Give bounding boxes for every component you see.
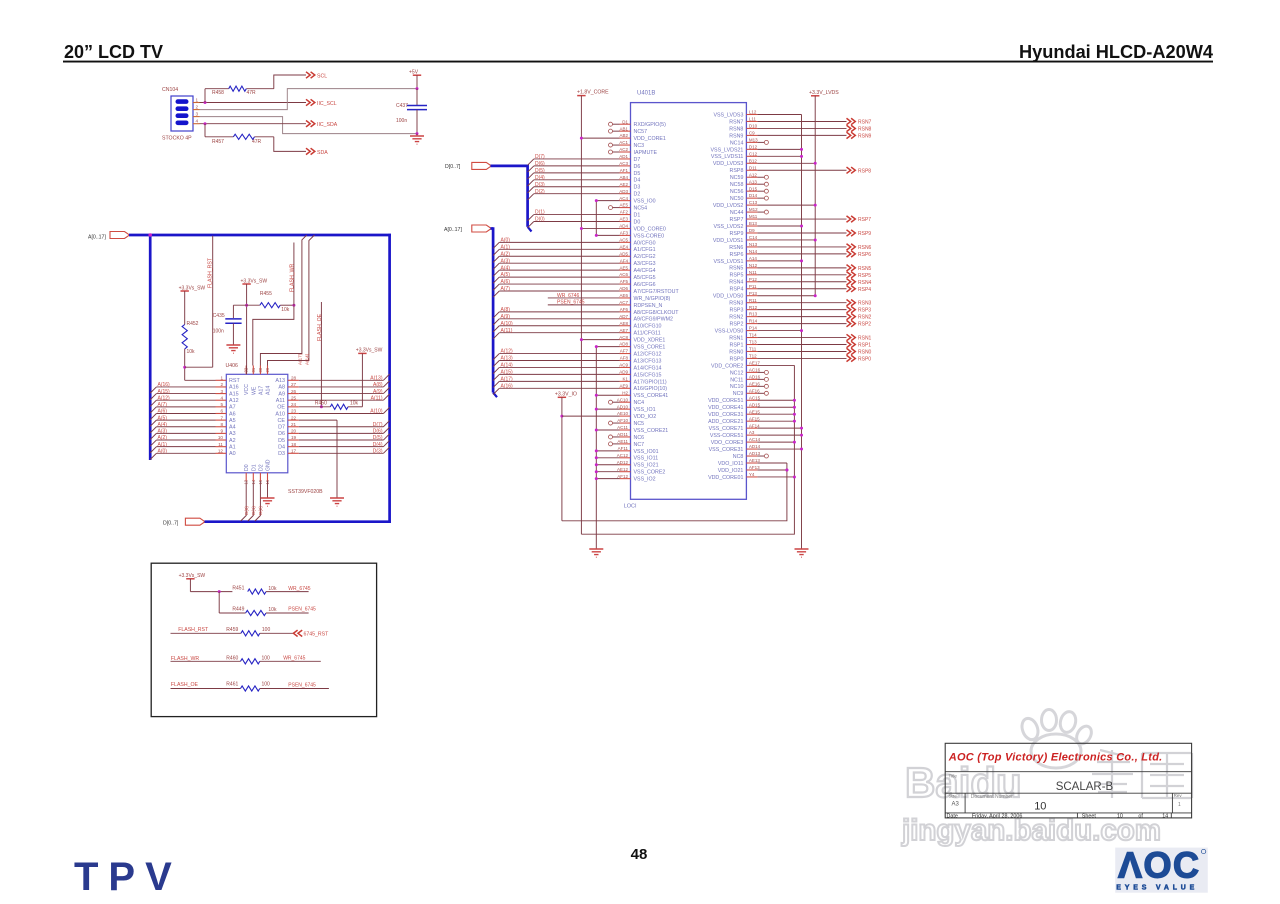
svg-text:30: 30 [258,367,263,372]
svg-text:ADD_CORE21: ADD_CORE21 [708,419,743,425]
svg-text:R455: R455 [260,291,272,297]
svg-text:R450: R450 [315,401,327,407]
svg-text:A7/CFG7/RSTOUT: A7/CFG7/RSTOUT [634,289,680,295]
svg-text:D(5): D(5) [535,168,545,174]
svg-text:AE7: AE7 [619,328,628,333]
svg-text:VDD_CORE2: VDD_CORE2 [711,363,743,369]
U401B left pin AE2 D3 [528,182,641,193]
svg-text:Friday, April 28, 2006: Friday, April 28, 2006 [972,814,1023,820]
svg-text:RSN2: RSN2 [729,315,743,321]
U401B right pin B12 VDD_LVDS3 [713,158,817,167]
svg-text:AD11: AD11 [617,432,628,437]
U406 left pin 7 A5 [216,415,236,424]
svg-text:STOCKO 4P: STOCKO 4P [162,136,192,142]
svg-text:A(9): A(9) [501,314,511,320]
svg-text:C437: C437 [396,103,408,109]
net arrow SCL [306,72,315,78]
svg-text:U406: U406 [226,363,239,369]
svg-text:AOC (Top Victory) Electronics: AOC (Top Victory) Electronics Co., Ltd. [948,752,1163,764]
svg-text:A(12): A(12) [158,395,171,401]
resistor R458 leads and wire to SCL [204,89,206,103]
U401B left pin AC10 NC4 [609,397,645,406]
U401B left pin AB2 VDD_CORE1 [580,133,666,142]
svg-text:VSS_LVDS11: VSS_LVDS11 [711,154,744,160]
svg-text:1: 1 [220,376,223,381]
svg-text:A3/CFG3: A3/CFG3 [634,261,656,267]
U406 left pin 11 A1 [216,442,236,451]
wire pin2 to +5V rail [200,89,417,110]
svg-text:D14: D14 [749,193,758,198]
U406 right pin 20 D6 [278,429,299,438]
junction R451 R449 [218,590,221,593]
U401B left pin AD5 A2/CFG2 [493,251,656,262]
svg-text:Size: Size [949,794,958,799]
svg-text:D(0): D(0) [535,217,545,223]
svg-text:D3: D3 [278,451,285,457]
resistor R457 zigzag [233,134,254,139]
junction FLASH_RST [183,366,186,369]
U401B left pin AF12 VSS_IO2 [595,474,656,483]
svg-text:AD4: AD4 [619,224,628,229]
svg-text:D11: D11 [749,165,757,170]
svg-text:R451: R451 [232,585,244,591]
U406 left pin 12 A0 [216,448,236,457]
svg-text:A5/CFG5: A5/CFG5 [634,275,656,281]
U406 left pin 1 RST [216,376,241,385]
svg-text:A(7): A(7) [501,286,511,292]
svg-text:D(6): D(6) [535,161,545,167]
svg-text:VDD_CORE1: VDD_CORE1 [634,136,666,142]
U401B right pin N13 RSN6 [729,242,871,251]
svg-text:A(10): A(10) [501,321,514,327]
svg-text:RSN8: RSN8 [729,126,743,132]
svg-text:AF4: AF4 [620,258,629,263]
U406 left pin 9 A3 [216,429,236,438]
U401B right pin AF16 NC9 [733,388,769,397]
U401B left pin AC5 A0/CFG0 [493,237,656,248]
wire R452 bottom to RST pin [184,349,186,380]
svg-text:AC14: AC14 [749,437,761,442]
svg-text:R13: R13 [749,312,758,317]
svg-text:AC2: AC2 [619,147,628,152]
svg-text:EYES VALUE: EYES VALUE [1116,885,1198,892]
svg-text:R458: R458 [212,90,224,96]
U401B left pin AF1 D5 [528,168,641,179]
svg-text:ΛOC: ΛOC [1118,845,1201,886]
wire pin3 to ground rail [200,117,417,134]
svg-text:WR_6746: WR_6746 [557,293,579,299]
svg-text:D6: D6 [634,164,641,170]
U401B right pin AD16 NC11 [730,374,768,383]
svg-text:T14: T14 [749,333,757,338]
svg-text:RSN9: RSN9 [858,133,872,139]
svg-text:AB2: AB2 [619,133,628,138]
svg-text:AE17: AE17 [749,361,761,366]
svg-text:SDA: SDA [317,150,328,156]
svg-text:D(2): D(2) [258,506,263,515]
U406 right pin 27 A8 [278,382,298,391]
svg-text:VDD_IO21: VDD_IO21 [718,468,744,474]
svg-text:WR_6745: WR_6745 [288,586,310,592]
svg-text:D1: D1 [622,119,628,124]
U401B left pin AE10 VDD_IO2 [562,411,656,420]
U401B right pin N12 RSN5 [729,263,871,272]
wire bus entry A(3) to U406 [150,429,215,440]
svg-text:48: 48 [631,846,648,863]
svg-text:A9/CFG9/PWM2: A9/CFG9/PWM2 [634,317,673,323]
svg-text:FLASH_OE: FLASH_OE [317,313,323,341]
U401B right pin T12 RSP0 [730,354,872,363]
svg-text:D(3): D(3) [373,448,383,454]
svg-text:VDD_LVDS1: VDD_LVDS1 [713,238,744,244]
svg-text:8: 8 [220,422,223,427]
svg-text:RXD/GPIO(5): RXD/GPIO(5) [634,122,667,128]
U406 left pin 10 A2 [216,435,236,444]
U406 right pin 24 OE [277,402,299,411]
svg-text:A(1): A(1) [158,442,168,448]
svg-text:D(4): D(4) [535,175,545,181]
U401B left pin AF11 VSS_IO01 [595,446,659,455]
U401B left pin AD3 D2 [528,189,641,200]
junction VCC rail [245,304,248,307]
U401B left pin AF5 A6/CFG6 [493,279,656,290]
U401B left pin AB4 D4 [528,175,641,186]
svg-text:A12/CFG12: A12/CFG12 [634,351,662,357]
svg-text:VDD_LVDS0: VDD_LVDS0 [713,294,744,300]
wire R459 to 6745_RST [260,632,294,634]
svg-text:RSP1: RSP1 [730,342,744,348]
wire bus entry A(14) to U406 A14 pin [268,235,315,366]
U401B left pin AD4 VDD_CORE0 [580,224,666,233]
U406 left pin 2 A16 [216,382,239,391]
svg-text:AC12: AC12 [617,453,629,458]
svg-text:M11: M11 [749,214,758,219]
wire bus entry A(16) to U406 [150,382,215,393]
U401B left pin AF6 A8/CFG8/CLKOUT [493,307,679,318]
svg-text:NC14: NC14 [730,140,744,146]
U401B left pin AF8 A13/CFG13 [493,356,661,367]
bus D[0..7] horizontal at U401B [491,165,529,168]
svg-text:1: 1 [196,98,199,103]
svg-text:D(1): D(1) [535,210,545,216]
svg-text:VSS_CORE1: VSS_CORE1 [634,345,666,351]
svg-text:AF13: AF13 [749,465,760,470]
svg-text:RSN0: RSN0 [729,349,743,355]
baidu watermark chinese characters [1092,750,1192,798]
U401B right pin D12 VSS_LVDS21 [711,144,803,153]
svg-text:SST39VF020B: SST39VF020B [288,489,323,495]
svg-text:A(13): A(13) [501,356,514,362]
svg-text:AF3: AF3 [620,231,629,236]
svg-text:H2: H2 [622,390,628,395]
U401B right pin AE13 VDO_IO11 [718,458,787,467]
svg-text:D0: D0 [244,464,250,471]
svg-text:VSS_CORE2: VSS_CORE2 [634,470,666,476]
svg-text:A(15): A(15) [158,389,171,395]
U401B right pin P11 RSP4 [730,284,872,293]
U401B left pin AF4 A3/CFG3 [493,258,656,269]
U401B left pin AD9 A15/CFG15 [493,370,661,381]
svg-text:NC50: NC50 [730,196,744,202]
svg-text:RSP0: RSP0 [858,356,871,362]
svg-text:AD14: AD14 [749,444,761,449]
U401B right pin C9 RSN9 [729,131,871,140]
resistor R460 zigzag [241,659,260,664]
U401B left pin AC3 D6 [528,161,641,172]
wire bus entry A(15) to U406 [150,389,215,400]
svg-text:A13: A13 [749,179,758,184]
svg-text:AD8: AD8 [619,342,628,347]
svg-text:RSP5: RSP5 [730,273,744,279]
svg-text:VSS_IO0: VSS_IO0 [634,199,656,205]
U401B right pin T14 RSN1 [729,333,871,342]
svg-text:A13: A13 [275,378,285,384]
svg-text:D(3): D(3) [535,182,545,188]
capacitor C435 [225,318,241,320]
svg-text:A(8): A(8) [373,382,383,388]
svg-text:A15/CFG15: A15/CFG15 [634,372,662,378]
svg-text:AF1: AF1 [620,168,629,173]
svg-text:P14: P14 [749,326,758,331]
U401B right pin C12 VSS_LVDS11 [711,151,803,160]
svg-text:A(8): A(8) [501,307,511,313]
svg-text:AC3: AC3 [619,161,628,166]
svg-text:N11: N11 [749,270,757,275]
U401B right pin AD15 VDD_CORE41 [708,402,796,411]
svg-text:RSN6: RSN6 [858,245,872,251]
U401B left pin AE5 A4/CFG4 [493,265,656,276]
svg-text:100: 100 [262,681,271,687]
svg-text:A(16): A(16) [158,382,171,388]
U406 right pin 17 D3 [278,448,299,457]
svg-text:A0: A0 [229,451,236,457]
svg-text:29: 29 [265,367,270,372]
svg-text:OE: OE [277,405,285,411]
ground left below U401B [589,549,603,555]
svg-text:A15: A15 [229,391,239,397]
svg-text:NC57: NC57 [634,129,648,135]
U401B right pin L11 RSN7 [729,117,871,126]
svg-text:NC4: NC4 [634,400,645,406]
U401B right pin C14 VDD_LVDS1 [713,235,817,244]
U401B left pin AF7 A12/CFG12 [493,349,661,360]
U406 right pin 19 D5 [278,435,299,444]
svg-text:A(14): A(14) [501,363,514,369]
svg-text:28: 28 [291,376,297,381]
svg-text:AE12: AE12 [617,467,629,472]
junction ground rail [416,132,419,135]
svg-text:RSP3: RSP3 [730,308,744,314]
ground below C437 [416,134,418,136]
svg-text:AD10: AD10 [617,404,629,409]
svg-text:Rev: Rev [1174,793,1183,798]
svg-text:FLASH_WR: FLASH_WR [290,263,296,292]
wire R461 to PSEN_6745 [260,688,329,690]
svg-text:100: 100 [262,655,271,661]
svg-text:R12: R12 [749,305,758,310]
title block column lines [965,793,1172,818]
svg-text:A(6): A(6) [501,279,511,285]
svg-text:A13/CFG13: A13/CFG13 [634,358,662,364]
U406 right pin 18 D4 [278,442,299,451]
svg-text:AB1: AB1 [619,126,628,131]
svg-text:A12: A12 [229,398,239,404]
svg-text:AC16: AC16 [749,367,761,372]
svg-text:R457: R457 [212,139,224,145]
svg-text:VSS_CORE71: VSS_CORE71 [709,426,744,432]
scalar IC U401B body [631,103,747,500]
resistor R457 leads and wire to SDA [204,124,206,137]
wire U406 to bus entry D(5) [299,434,390,441]
wire U406 to bus entry A(10) [299,407,390,414]
wire CE pin to ground [299,419,337,421]
svg-text:RDPSEN_N: RDPSEN_N [634,303,663,309]
U401B right pin A14 VSS_LVDS1 [713,256,803,265]
svg-text:A(6): A(6) [158,409,168,415]
svg-text:Document Number: Document Number [971,794,1013,800]
svg-text:VSS_LVDS1: VSS_LVDS1 [713,259,743,265]
U401B left pin D1 RXD/GPIO(5) [609,119,667,128]
svg-text:AE13: AE13 [749,458,761,463]
svg-text:AC15: AC15 [749,395,761,400]
svg-text:A14/CFG14: A14/CFG14 [634,365,662,371]
U401B right pin T13 RSP1 [730,340,872,349]
wire R455 to WE pin [280,304,294,306]
svg-text:AC8: AC8 [619,335,628,340]
U401B right pin R13 RSN2 [729,312,871,321]
bus connector arrow A[0..17] at U401B [472,225,492,232]
svg-text:RSN1: RSN1 [858,336,872,342]
svg-text:A7: A7 [229,405,236,411]
junction +5V rail [416,87,419,90]
svg-text:A14: A14 [266,386,272,395]
svg-text:VCC: VCC [244,384,250,395]
svg-text:18: 18 [291,442,297,447]
svg-text:D2: D2 [634,192,641,198]
svg-text:R460: R460 [226,655,238,661]
U401B right pin Y4 VDD_CORE01 [708,472,796,481]
svg-text:26: 26 [291,389,297,394]
baidu watermark paw logo [1019,710,1094,769]
U401B left pin K1 A17/GPIO(11) [493,376,667,387]
svg-text:VSS_CORE21: VSS_CORE21 [634,428,669,434]
svg-text:NC6: NC6 [634,435,645,441]
svg-text:NC7: NC7 [634,442,645,448]
svg-text:AF10: AF10 [617,418,628,423]
svg-text:A(17): A(17) [501,376,514,382]
svg-text:A(13): A(13) [370,376,383,382]
svg-text:AF16: AF16 [749,388,760,393]
svg-text:VDO_IO11: VDO_IO11 [718,461,744,467]
U401B right pin R11 RSN3 [729,298,871,307]
U401B right pin M13 NC14 [730,137,769,146]
svg-text:100n: 100n [213,329,224,335]
resistor R455 zigzag [260,303,280,308]
U401B right pin N11 RSP5 [730,270,872,279]
U401B left pin AC6 A5/CFG5 [493,272,656,283]
U401B left pin AD8 VSS_CORE1 [595,342,666,351]
svg-text:RST: RST [229,378,240,384]
svg-text:A17: A17 [258,386,264,395]
svg-text:RSN4: RSN4 [858,280,872,286]
svg-text:FLASH_RST: FLASH_RST [208,257,214,288]
svg-text:VSS_CORE41: VSS_CORE41 [634,393,669,399]
svg-text:L12: L12 [749,110,757,115]
bus connector arrow D[0..7] at U401B [472,162,492,169]
ground rail VSS left vertical lower [595,347,597,549]
capacitor C437 [416,89,418,106]
svg-text:VSS_IO11: VSS_IO11 [634,456,659,462]
svg-text:NC5: NC5 [634,421,645,427]
svg-text:R449: R449 [232,607,244,613]
svg-text:100n: 100n [396,118,407,124]
svg-text:VSS_IO01: VSS_IO01 [634,449,659,455]
svg-text:A(5): A(5) [158,415,168,421]
wire U406 to bus entry D(7) [299,421,390,428]
svg-text:D[0..7]: D[0..7] [163,521,179,527]
svg-text:LOCI: LOCI [624,504,637,510]
svg-text:47R: 47R [252,139,262,145]
wire bus entry A(1) to U406 [150,442,215,453]
svg-text:AF6: AF6 [620,307,629,312]
U401B left pin AC11 VSS_CORE21 [595,425,668,434]
svg-text:N12: N12 [749,263,758,268]
U401B left pin AD6 A7/CFG7/RSTOUT [493,286,679,297]
svg-text:K1: K1 [622,376,628,381]
ground rail VSS left vertical upper [595,201,597,236]
svg-text:A(11): A(11) [501,328,513,334]
wire bus entry A(4) to U406 [150,422,215,433]
svg-text:D(4): D(4) [373,442,383,448]
U406 left pin 3 A15 [216,389,239,398]
svg-text:A11/CFG11: A11/CFG11 [634,331,661,337]
wire R450 to +3.3Vs_SW [348,406,362,408]
svg-text:19: 19 [291,435,297,440]
svg-text:A(11): A(11) [371,395,383,401]
power rail +3.3V_LVDS vertical [814,96,816,296]
U401B right pin AF15 ADD_CORE21 [708,416,796,425]
U401B left pin AC1 NC3 [609,140,645,149]
bus A[0..17] left vertical [149,235,152,460]
svg-text:AE10: AE10 [617,411,629,416]
svg-text:AE3: AE3 [619,217,628,222]
svg-text:RSP1: RSP1 [858,343,871,349]
svg-text:AD16: AD16 [749,374,761,379]
svg-text:A3: A3 [229,431,236,437]
svg-text:A3: A3 [749,430,755,435]
svg-text:A1: A1 [229,444,236,450]
svg-text:D[0..7]: D[0..7] [445,164,461,170]
svg-text:6745_RST: 6745_RST [304,632,330,638]
svg-text:11: 11 [218,442,223,447]
svg-text:VSS_IO2: VSS_IO2 [634,477,656,483]
U401B left pin AE4 A1/CFG1 [493,244,656,255]
svg-text:Sheet: Sheet [1082,814,1097,820]
svg-text:D12: D12 [749,144,758,149]
svg-text:WR_6745: WR_6745 [283,656,305,662]
junction bus corner [148,233,152,237]
svg-text:AE5: AE5 [619,265,628,270]
svg-text:+3.3V_IO: +3.3V_IO [555,391,577,397]
svg-text:RSP7: RSP7 [730,217,744,223]
svg-text:4: 4 [220,395,223,400]
svg-text:A(3): A(3) [158,429,168,435]
wire bus entry A(7) to U406 [150,402,215,413]
svg-text:AE5: AE5 [619,203,628,208]
svg-text:RSN3: RSN3 [858,301,872,307]
junction FLASH_OE at OE [320,405,323,408]
svg-text:A(0): A(0) [158,448,168,454]
